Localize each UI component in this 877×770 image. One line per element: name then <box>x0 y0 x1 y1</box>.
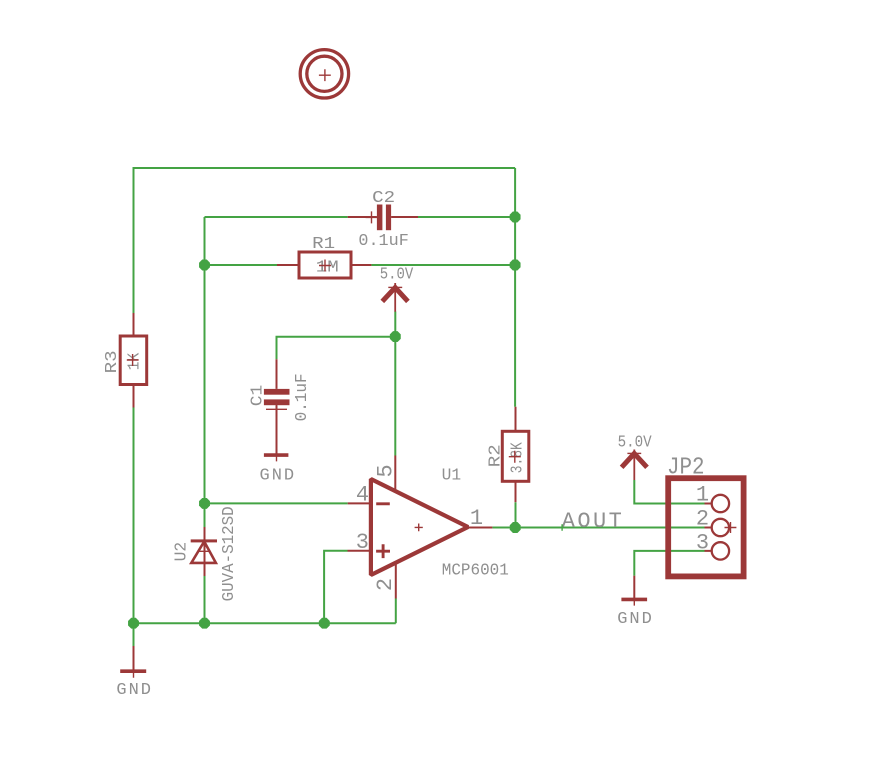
ground bar <box>621 598 647 602</box>
U1 triangle body <box>371 479 468 575</box>
connector JP2 <box>667 455 744 577</box>
U2 anode triangle <box>191 542 216 563</box>
C2 origin cross <box>366 211 378 223</box>
capacitor C2 <box>348 189 418 251</box>
JP2 pin 1 circle <box>712 495 729 512</box>
svg-text:C2: C2 <box>372 189 395 208</box>
JP2 origin cross <box>725 522 737 533</box>
svg-text:2: 2 <box>373 578 398 591</box>
U1 non-inverting input plus sign <box>376 544 390 558</box>
ground symbol (below C1) <box>260 449 295 485</box>
junction x515 R1 row <box>510 260 521 271</box>
svg-text:3.8K: 3.8K <box>508 442 527 474</box>
ground origin cross <box>628 593 640 605</box>
junction x204 R1 row <box>199 260 210 271</box>
resistor R3 <box>103 313 147 408</box>
wire mid vertical x204 <box>204 217 206 527</box>
C1 origin cross <box>266 403 287 415</box>
junction bottom mid <box>199 618 210 629</box>
C2 left plate <box>377 205 383 231</box>
ground origin cross <box>271 449 283 461</box>
svg-text:GND: GND <box>617 610 652 629</box>
supply origin cross <box>388 286 402 288</box>
wire supply1 to pin5 <box>394 312 396 456</box>
svg-text:5.0V: 5.0V <box>380 266 414 285</box>
R1 body <box>299 252 351 278</box>
ground symbol (below JP2) <box>617 576 652 630</box>
supply origin cross <box>627 452 641 454</box>
ground bar <box>120 669 146 673</box>
R2 body <box>502 431 529 481</box>
JP2 pin leads <box>705 504 712 551</box>
C2 right plate <box>386 205 391 231</box>
capacitor C1 <box>248 359 311 455</box>
wire right vertical <box>514 168 516 407</box>
svg-text:2: 2 <box>696 506 709 531</box>
svg-text:1: 1 <box>470 506 483 531</box>
wire AOUT net <box>492 527 704 529</box>
U1 power pin leads (pins 5,2) <box>394 456 397 599</box>
op-amp U1 <box>348 456 509 599</box>
junction bottom left <box>128 618 139 629</box>
svg-text:1K: 1K <box>126 352 145 370</box>
svg-text:3: 3 <box>696 530 709 555</box>
svg-text:0.1uF: 0.1uF <box>358 232 408 251</box>
svg-text:3: 3 <box>356 530 369 555</box>
U2 cathode bar <box>191 539 217 542</box>
R1 origin cross <box>319 260 331 272</box>
svg-text:5.0V: 5.0V <box>618 433 653 452</box>
ground pin lead <box>133 646 135 671</box>
junction pin4 node <box>199 498 210 509</box>
wire C1 top net <box>277 337 396 360</box>
wire R2 to output node <box>515 502 517 527</box>
U1 input pin leads (pins 4,3) <box>348 503 372 550</box>
R1 pin leads <box>277 264 371 266</box>
junction bottom pin3 <box>319 618 330 629</box>
svg-text:1: 1 <box>696 482 709 507</box>
R3 origin cross <box>127 354 139 366</box>
wire jp pin3 net <box>634 551 704 576</box>
wire mid vertical x204 lower <box>204 576 206 623</box>
svg-text:U1: U1 <box>442 467 462 486</box>
U1 output pin lead (pin 1) <box>468 527 492 529</box>
AOUT label anchor cross <box>559 524 565 530</box>
junction x515 C2 row <box>510 212 521 223</box>
net label AOUT <box>559 509 622 534</box>
U2 origin cross <box>198 545 210 557</box>
wire R1 row left <box>205 264 278 266</box>
supply stem <box>633 450 635 481</box>
JP2 body <box>668 478 743 576</box>
JP2 pin 3 circle <box>712 542 729 559</box>
svg-text:4: 4 <box>356 482 369 507</box>
wire left vertical upper <box>133 167 135 313</box>
wire left vertical lower <box>133 404 135 646</box>
ground origin cross <box>128 665 140 678</box>
U2 pin leads <box>204 527 206 576</box>
JP2 pin 2 circle <box>712 519 729 536</box>
C2 pin leads <box>348 216 418 218</box>
wire pin4 net <box>205 502 348 504</box>
C1 top plate <box>264 389 290 395</box>
R3 body <box>120 336 147 385</box>
svg-text:GND: GND <box>260 466 295 485</box>
resistor R1 <box>277 235 371 278</box>
svg-text:C1: C1 <box>248 385 267 407</box>
mounting hole H1 <box>300 50 348 98</box>
svg-text:1M: 1M <box>316 259 339 278</box>
ground bar <box>264 453 289 457</box>
C1 bottom plate <box>264 399 290 405</box>
R3 pin leads <box>133 313 135 408</box>
wire top rail <box>134 167 516 169</box>
svg-text:0.1uF: 0.1uF <box>293 373 312 421</box>
U1 origin cross <box>415 524 423 532</box>
ground pin lead <box>633 576 635 600</box>
wire pin3 net <box>324 551 347 624</box>
wire pin2 down <box>395 599 397 624</box>
supply symbol 5.0V (left) <box>380 266 414 312</box>
photodiode U2 <box>173 506 240 601</box>
wire C2 row left <box>205 216 348 218</box>
resistor R2 <box>486 407 529 528</box>
ground symbol (bottom left) <box>116 646 151 700</box>
supply arrow chevron <box>382 288 408 302</box>
svg-text:U2: U2 <box>173 542 192 562</box>
svg-text:MCP6001: MCP6001 <box>442 562 509 581</box>
U1 inverting input minus sign <box>376 502 390 505</box>
svg-text:JP2: JP2 <box>667 455 705 482</box>
R2 pin leads <box>515 407 517 503</box>
svg-text:R1: R1 <box>312 235 335 254</box>
wire C2 row right <box>418 216 515 218</box>
junction supply node <box>390 331 401 342</box>
svg-text:GND: GND <box>116 681 151 700</box>
supply stem <box>394 283 396 312</box>
C1 pin leads <box>276 359 278 455</box>
supply symbol 5.0V (right) <box>618 433 653 480</box>
junction output node <box>510 522 521 533</box>
svg-text:5: 5 <box>374 464 399 477</box>
supply arrow chevron <box>622 454 647 468</box>
svg-text:GUVA-S12SD: GUVA-S12SD <box>220 506 239 601</box>
R2 origin cross <box>509 451 521 463</box>
svg-text:R2: R2 <box>486 444 505 467</box>
wire jp pin1 net <box>634 480 704 504</box>
wire R1 row right <box>371 264 515 266</box>
svg-text:R3: R3 <box>103 350 122 373</box>
wire bottom rail <box>134 622 396 624</box>
